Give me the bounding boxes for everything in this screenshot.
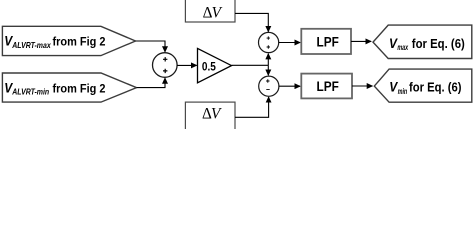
svg-text:for Eq. (6): for Eq. (6) bbox=[409, 81, 462, 95]
block LPF1 bbox=[301, 29, 351, 54]
input tag VALVRT-max bbox=[2, 26, 135, 55]
svg-text:min: min bbox=[398, 87, 408, 96]
block dV bottom bbox=[185, 102, 235, 134]
summing junction S3 bbox=[259, 76, 279, 96]
summing junction S1 bbox=[153, 53, 178, 78]
wire split to sum2 bbox=[267, 54, 269, 66]
svg-text:ALVRT-max: ALVRT-max bbox=[11, 40, 51, 50]
wire sum3 to LPF2 bbox=[279, 85, 300, 87]
svg-text:V: V bbox=[212, 4, 223, 21]
summing junction S2 bbox=[259, 32, 279, 52]
svg-text:0.5: 0.5 bbox=[202, 59, 216, 73]
wire sum2 to LPF1 bbox=[279, 42, 300, 44]
wire dV bottom to sum3 bbox=[235, 97, 269, 117]
gain block 0.5 bbox=[198, 48, 232, 82]
block dV top bbox=[185, 0, 235, 22]
wire gain to split junction bbox=[232, 64, 269, 66]
svg-text:max: max bbox=[397, 43, 408, 52]
svg-text:LPF: LPF bbox=[317, 34, 339, 49]
wire dV top to sum2 bbox=[235, 13, 268, 31]
input tag VALVRT-min bbox=[2, 73, 136, 102]
svg-text:LPF: LPF bbox=[317, 79, 339, 94]
block LPF2 bbox=[301, 74, 352, 99]
svg-text:for Eq. (6): for Eq. (6) bbox=[412, 37, 465, 51]
svg-text:V: V bbox=[211, 105, 222, 122]
svg-text:ALVRT-min: ALVRT-min bbox=[11, 87, 49, 97]
wire split to sum3 bbox=[267, 65, 269, 75]
output tag Vmax bbox=[373, 25, 472, 58]
svg-text:from Fig 2: from Fig 2 bbox=[53, 35, 106, 49]
wire LPF2 to Vmin tag bbox=[352, 85, 372, 87]
wire bottom tag to sum1 bbox=[137, 78, 166, 88]
output tag Vmin bbox=[374, 69, 472, 102]
wire sum1 to gain bbox=[177, 64, 197, 66]
wire top tag to sum1 bbox=[136, 41, 166, 52]
wire LPF1 to Vmax tag bbox=[351, 40, 371, 42]
svg-text:from Fig 2: from Fig 2 bbox=[53, 81, 106, 95]
